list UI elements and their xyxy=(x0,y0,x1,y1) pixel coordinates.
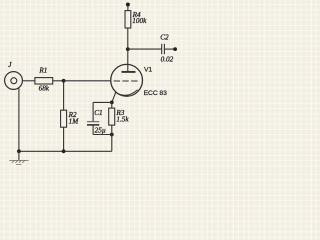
label V1 xyxy=(144,67,152,74)
svg-text:ECC 83: ECC 83 xyxy=(144,90,168,97)
wire cathode junction to C1 xyxy=(93,101,112,103)
node output terminal xyxy=(173,47,177,51)
label R2 xyxy=(68,111,77,119)
svg-text:1.5k: 1.5k xyxy=(116,116,129,124)
svg-text:C2: C2 xyxy=(160,34,169,42)
wire cathode lead xyxy=(112,92,116,102)
wire plate lead xyxy=(127,49,129,71)
capacitor C1 xyxy=(87,122,99,125)
V1 plate xyxy=(122,71,136,73)
label C1 xyxy=(94,109,102,117)
svg-text:100k: 100k xyxy=(132,17,147,25)
wire R4 to supply terminal xyxy=(127,5,129,11)
label R3 xyxy=(115,109,124,117)
label R1 xyxy=(38,67,47,75)
svg-text:J: J xyxy=(8,61,12,69)
V1 grid (dashed) xyxy=(114,80,138,82)
label 1M xyxy=(69,118,80,126)
node plate junction xyxy=(126,47,130,51)
svg-text:1M: 1M xyxy=(69,118,80,126)
capacitor C2 xyxy=(162,44,165,54)
resistor R1 xyxy=(35,78,53,84)
svg-text:0.02: 0.02 xyxy=(161,56,174,64)
label R4 xyxy=(132,11,141,19)
resistor R4 xyxy=(125,11,131,28)
connector J (input jack) xyxy=(5,72,23,90)
label 100k xyxy=(132,17,147,25)
node C1-R3 junction xyxy=(110,133,114,137)
label J xyxy=(8,61,12,69)
ground xyxy=(9,151,28,164)
wire C1 top lead xyxy=(92,102,94,121)
wire R3 to bus xyxy=(111,125,113,151)
node R2-bus junction xyxy=(62,149,66,153)
wire grid node down to R2 xyxy=(63,81,65,110)
node cathode junction xyxy=(110,101,114,105)
svg-text:C1: C1 xyxy=(94,109,102,117)
label ECC 83 xyxy=(144,90,168,97)
wire grid node to tube grid xyxy=(64,80,111,82)
ground bus wire xyxy=(19,150,112,152)
wire plate junction to C2 xyxy=(128,48,162,50)
triode V1 envelope xyxy=(111,64,143,96)
V1 cathode xyxy=(115,90,138,96)
wire R1 to grid node xyxy=(53,80,64,82)
node grid junction xyxy=(62,79,66,83)
wire cathode junction to R3 xyxy=(111,102,113,108)
label 25µ xyxy=(95,126,106,134)
label 0.02 xyxy=(161,56,174,64)
svg-text:68k: 68k xyxy=(39,85,50,93)
label 1.5k xyxy=(116,116,129,124)
wire jack to R1 xyxy=(23,80,35,82)
svg-text:R1: R1 xyxy=(38,67,47,75)
wire plate junction up to R4 xyxy=(127,28,129,49)
label 68k xyxy=(39,85,50,93)
wire jack sleeve down xyxy=(18,88,20,151)
wire R2 to ground bus xyxy=(63,127,65,151)
resistor R2 xyxy=(61,110,67,127)
wire C1 to R3 bottom junction xyxy=(93,134,112,136)
node supply terminal xyxy=(126,3,130,7)
wire C1 bottom lead xyxy=(92,125,94,134)
label C2 xyxy=(160,34,169,42)
svg-text:V1: V1 xyxy=(144,67,152,74)
node ground-jack junction xyxy=(17,149,21,153)
wire C2 to output terminal xyxy=(164,48,173,50)
svg-text:25µ: 25µ xyxy=(95,126,106,134)
resistor R3 xyxy=(109,108,115,125)
